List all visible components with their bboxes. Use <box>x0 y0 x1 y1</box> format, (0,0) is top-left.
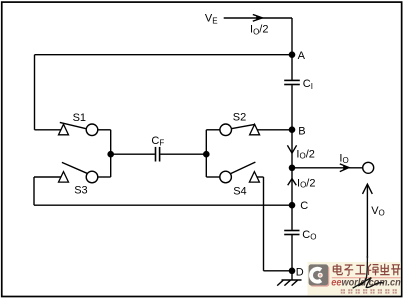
scribble over watermark (bottom of VO line) <box>353 256 384 288</box>
wire: CF left node to CF plate <box>111 153 155 155</box>
node: IO junction <box>289 165 296 172</box>
output terminal circle <box>363 162 374 173</box>
wire: left vertical S3 to bottom row <box>33 177 35 205</box>
arrow: IO rightward on output branch <box>340 164 349 172</box>
svg-text:IO/2: IO/2 <box>296 148 314 160</box>
svg-text:S3: S3 <box>74 184 87 196</box>
wire: S2 left lead <box>206 129 220 131</box>
node: CF right junction <box>203 151 210 158</box>
watermark background box <box>308 262 401 295</box>
ground symbol at D <box>277 271 301 286</box>
wire: S3 right lead <box>98 176 111 178</box>
wire: S3 left lead <box>34 176 64 178</box>
wire: left vertical A-row to S1 <box>34 55 36 130</box>
wire: S4 left lead <box>206 176 220 178</box>
svg-text:S4: S4 <box>233 186 246 198</box>
svg-text:IO/2: IO/2 <box>250 24 268 37</box>
capacitor CF <box>156 147 160 162</box>
switch S4 <box>220 162 260 183</box>
arrow: IO/2 downward between B and IO junction <box>287 145 296 153</box>
switch S2 <box>220 124 260 136</box>
wire: right bus top segment (top corner to CI top plate) <box>291 18 293 80</box>
wire: vertical S2/S4 to CF right node <box>205 130 207 177</box>
switch S1 <box>59 122 98 135</box>
capacitor CI <box>284 80 300 84</box>
node B <box>289 126 296 133</box>
wire: S4 right lead <box>254 176 263 178</box>
wire: right bus CO to D segment <box>291 235 293 271</box>
arrow: IO/2 upward between IO junction and C <box>288 179 297 186</box>
wire: bottom row horizontal to node C <box>34 204 292 206</box>
wire: S1 right lead to CF left node <box>98 129 111 131</box>
watermark logo <box>309 264 330 286</box>
svg-text:IO/2: IO/2 <box>297 177 315 189</box>
arrow: IO/2 current arrow on VE feed <box>253 15 262 22</box>
wire: S2 right lead to node B <box>255 129 292 131</box>
capacitor CO <box>284 231 299 235</box>
wire: right bus CI to CO segment <box>291 85 293 230</box>
wire: vertical S1/S3 to CF left node <box>110 130 112 177</box>
wire: D row horizontal to node D <box>264 270 293 272</box>
svg-text:A: A <box>298 50 306 62</box>
svg-text:S1: S1 <box>73 112 86 124</box>
svg-text:B: B <box>298 125 305 137</box>
arrow: VO upward <box>363 184 373 258</box>
svg-text:C: C <box>300 200 308 212</box>
svg-text:D: D <box>296 267 304 279</box>
svg-text:S2: S2 <box>233 112 246 124</box>
wire: CF plate to CF right node <box>160 153 206 155</box>
watermark title 电子工程世界 (faux glyph strokes) <box>333 264 400 276</box>
node A <box>289 51 296 58</box>
node D <box>289 268 296 275</box>
wire: IO branch horizontal to output terminal <box>292 167 363 169</box>
watermark slogan row <box>341 289 397 293</box>
wire: node A row horizontal <box>35 54 293 56</box>
switch S3 <box>59 162 98 182</box>
watermark title underline <box>332 277 401 278</box>
wire: S1 left lead <box>35 129 64 131</box>
node: CF left junction <box>107 151 114 158</box>
wire: vertical S4 down to D row <box>263 177 265 271</box>
wire: VE feed top horizontal <box>224 17 292 19</box>
node C <box>289 202 296 209</box>
